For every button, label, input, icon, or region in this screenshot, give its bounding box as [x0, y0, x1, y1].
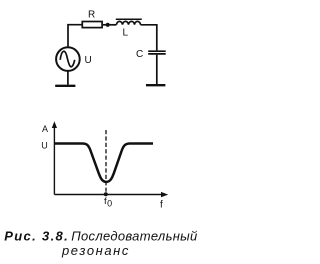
svg-text:f0: f0 [104, 196, 112, 209]
wire resistor-to-junction [103, 24, 108, 26]
svg-text:A: A [42, 124, 48, 134]
wire source-to-resistor [68, 25, 83, 48]
svg-text:Последовательный: Последовательный [71, 229, 197, 244]
x-axis with arrow [54, 192, 168, 197]
node f0 dot [104, 192, 108, 196]
wire capacitor-to-ground [156, 55, 158, 85]
junction dot [106, 23, 110, 27]
ground left [55, 85, 75, 87]
svg-text:L: L [123, 28, 129, 39]
svg-text:f: f [160, 199, 163, 210]
dashed line at f0 [105, 130, 107, 192]
ground right [146, 84, 165, 86]
resistor R [82, 22, 102, 28]
wire inductor-to-capacitor [141, 25, 157, 51]
wire source-to-ground [67, 71, 69, 85]
response curve [55, 144, 153, 182]
svg-text:U: U [85, 55, 92, 66]
wire junction-to-inductor [108, 24, 117, 26]
inductor core line [116, 18, 142, 20]
svg-text:Рис. 3.8.: Рис. 3.8. [4, 229, 69, 244]
svg-text:U: U [41, 141, 48, 151]
svg-text:C: C [136, 49, 143, 60]
capacitor C [148, 51, 166, 54]
caption [4, 229, 197, 259]
AC source U [56, 47, 80, 71]
svg-text:резонанс: резонанс [61, 243, 130, 258]
svg-text:R: R [88, 10, 95, 21]
inductor L [117, 21, 141, 24]
y-axis with arrow [52, 121, 57, 194]
